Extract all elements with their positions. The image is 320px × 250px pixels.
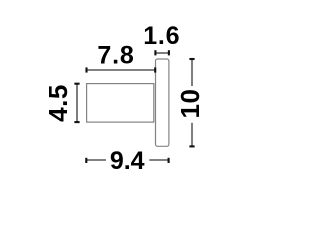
tick top of 10	[189, 58, 194, 60]
svg-text:1.6: 1.6	[143, 22, 180, 50]
svg-text:4.5: 4.5	[43, 84, 73, 122]
dimension line 10 lower	[191, 123, 193, 147]
svg-text:9.4: 9.4	[110, 147, 145, 175]
tick left of 9.4	[85, 158, 87, 163]
svg-text:7.8: 7.8	[97, 42, 134, 70]
tick bottom of 4.5	[74, 121, 79, 123]
svg-text:10: 10	[175, 89, 205, 119]
tick left of 1.6	[154, 50, 156, 55]
tick bottom of 10	[189, 145, 194, 147]
dimension line 7.8	[87, 69, 156, 71]
tick right of 7.8	[154, 67, 156, 72]
dimension line 9.4 right	[149, 159, 168, 161]
dimension line 1.6	[155, 52, 169, 54]
tick right of 9.4	[168, 158, 170, 163]
dimension line 4.5	[76, 84, 78, 123]
tick top of 4.5	[74, 83, 79, 85]
tick left of 7.8	[85, 67, 87, 72]
dimension line 10 upper	[191, 59, 193, 86]
tick right of 1.6	[168, 50, 170, 55]
dimension line 9.4 left	[86, 159, 106, 161]
lamp body (cylinder side view)	[87, 84, 154, 123]
mounting plate	[156, 59, 169, 146]
